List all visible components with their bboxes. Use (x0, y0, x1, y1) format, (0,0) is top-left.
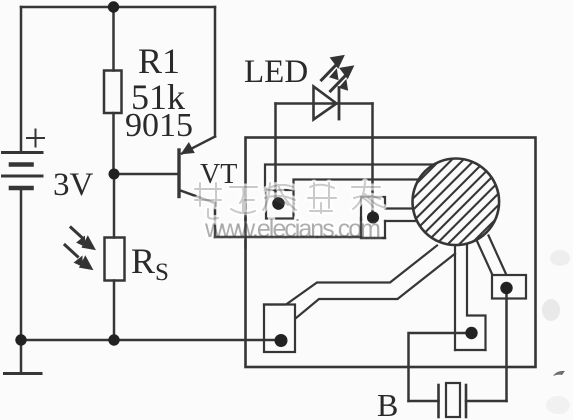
wire collector to module pad B (215, 236, 361, 239)
wire bottom rail (21, 339, 281, 342)
sounder B body (446, 383, 460, 417)
sounder B left plate (437, 385, 440, 417)
svg-text:RS: RS (131, 241, 169, 286)
pad C dot (275, 334, 288, 347)
trace from pad B to chip (385, 209, 417, 222)
wire battery negative lead (20, 188, 23, 340)
pad B dot (367, 212, 379, 224)
wire battery positive lead (20, 7, 23, 153)
pad A dot (over watermark) (272, 197, 284, 209)
Rs light arrow 2 (65, 245, 93, 270)
wire collector to pad B (over watermark) (215, 216, 385, 248)
LED triangle (314, 87, 337, 120)
pad A (266, 190, 294, 219)
svg-text:9015: 9015 (125, 107, 193, 144)
wire pad D to sounder B (409, 333, 466, 401)
wire collector drop (214, 203, 217, 237)
watermark (195, 182, 383, 243)
svg-text:www.elecians.com: www.elecians.com (204, 215, 381, 243)
junction top rail / R1 (108, 1, 119, 12)
pad C (264, 305, 295, 353)
wire R1 bottom lead to base node (112, 113, 115, 174)
transistor VT emitter arrow (182, 143, 195, 154)
battery plus sign (27, 130, 44, 147)
junction Rs / bottom rail (108, 334, 119, 345)
svg-text:R1: R1 (138, 41, 180, 81)
trace middle leg to pad D (455, 244, 486, 350)
ground (5, 340, 42, 374)
wire R1 top lead (112, 7, 115, 71)
wire Rs bottom lead (113, 281, 116, 341)
transistor VT base bar (177, 150, 180, 197)
trace right leg to pad E (477, 236, 507, 276)
pad E (492, 275, 526, 299)
resistor R1 (104, 71, 122, 114)
LED cathode bar (338, 88, 341, 120)
pad B dot (over watermark) (367, 212, 379, 224)
svg-text:LED: LED (244, 54, 308, 90)
wire LED top (276, 102, 373, 105)
module board outline (246, 138, 536, 368)
svg-text:B: B (377, 387, 398, 420)
wire Rs top lead (113, 174, 116, 238)
transistor VT collector (181, 191, 216, 204)
trace from pad A to chip (265, 165, 433, 191)
Rs light arrow 1 (71, 228, 95, 250)
wire top rail (21, 6, 215, 9)
LED light arrow 2 (331, 66, 354, 91)
zigzag trace from pad C to chip (264, 246, 455, 319)
wire base (114, 173, 178, 176)
LED light arrow 1 (322, 56, 345, 81)
photoresistor Rs (105, 238, 125, 281)
pad A dot (272, 197, 284, 209)
sounder B right lead (466, 400, 507, 403)
wire pad E to sounder B (505, 295, 508, 401)
transistor VT emitter (182, 137, 215, 154)
junction base node (109, 169, 120, 180)
wire LED left drop to pad A (274, 104, 277, 201)
battery 3V plates (3, 153, 43, 189)
pad E dot (500, 282, 512, 294)
junction battery / bottom rail (15, 334, 26, 345)
sounder B left lead (409, 400, 439, 403)
svg-text:3V: 3V (53, 167, 94, 203)
sounder B right plate (465, 385, 468, 417)
pad B (361, 197, 385, 238)
wire LED right drop to pad B (371, 104, 374, 218)
chip blob (hatched) (355, 123, 573, 245)
wire emitter drop from top rail (214, 7, 217, 137)
pad D dot (465, 327, 477, 339)
